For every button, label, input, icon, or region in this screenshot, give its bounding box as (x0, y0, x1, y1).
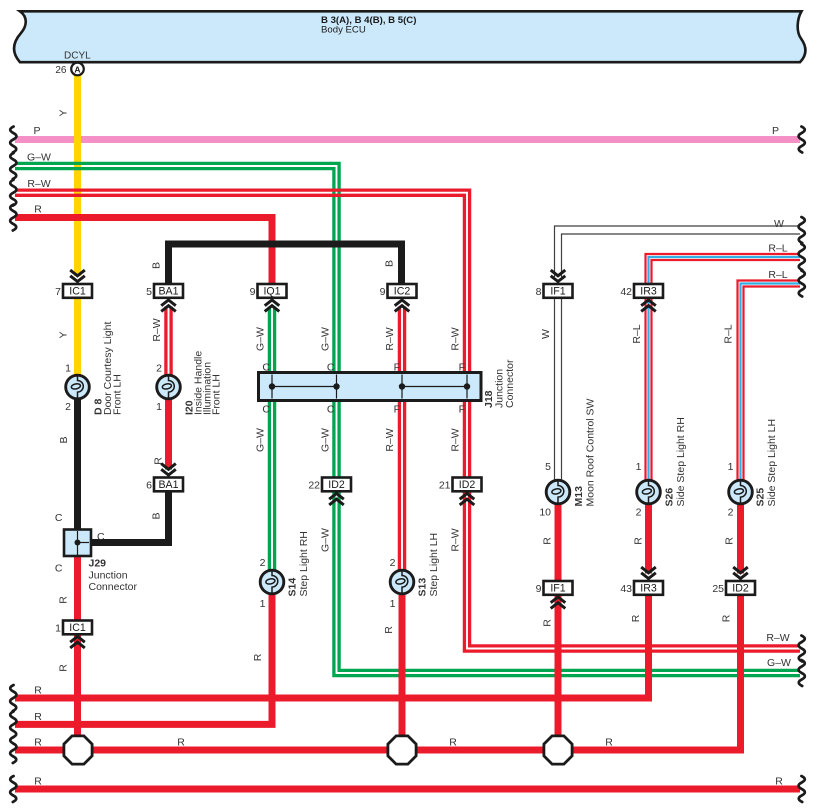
svg-text:42: 42 (620, 286, 632, 298)
svg-text:1: 1 (390, 598, 396, 610)
svg-text:B: B (151, 512, 163, 519)
svg-text:2: 2 (390, 557, 396, 569)
svg-text:R–W: R–W (450, 428, 462, 451)
svg-text:7: 7 (55, 286, 61, 298)
svg-text:1: 1 (55, 622, 61, 634)
svg-text:2: 2 (728, 507, 734, 519)
svg-text:R: R (34, 737, 42, 749)
svg-text:8: 8 (536, 286, 542, 298)
svg-text:R: R (58, 664, 70, 672)
svg-text:IF1: IF1 (550, 286, 565, 298)
svg-text:R: R (605, 737, 613, 749)
svg-text:C: C (262, 362, 270, 374)
svg-text:A: A (74, 64, 80, 74)
svg-text:F: F (459, 404, 465, 416)
svg-text:R: R (177, 737, 185, 749)
svg-text:R: R (153, 457, 165, 465)
svg-text:S14: S14 (287, 578, 299, 597)
svg-text:R: R (630, 614, 642, 622)
svg-text:C: C (327, 362, 335, 374)
svg-text:1: 1 (636, 461, 642, 473)
svg-text:R: R (252, 653, 264, 661)
svg-text:IC2: IC2 (394, 286, 411, 298)
svg-text:ID2: ID2 (328, 479, 345, 491)
svg-text:R–L: R–L (768, 243, 787, 255)
svg-text:S26: S26 (664, 488, 676, 507)
svg-text:5: 5 (146, 286, 152, 298)
svg-text:C: C (55, 512, 63, 524)
svg-text:R: R (542, 619, 554, 627)
svg-text:F: F (394, 404, 400, 416)
svg-text:G–W: G–W (320, 428, 332, 452)
svg-text:R: R (34, 204, 42, 216)
svg-text:R–W: R–W (27, 178, 50, 190)
svg-text:Junction: Junction (89, 570, 128, 582)
svg-text:10: 10 (539, 507, 551, 519)
svg-text:21: 21 (439, 479, 451, 491)
svg-text:R–W: R–W (450, 528, 462, 551)
svg-text:R: R (34, 776, 42, 788)
svg-text:R–W: R–W (766, 632, 789, 644)
svg-text:IF1: IF1 (550, 583, 565, 595)
svg-text:R–W: R–W (384, 327, 396, 350)
svg-text:W: W (540, 329, 552, 339)
svg-text:G–W: G–W (27, 152, 51, 164)
svg-text:R–W: R–W (384, 428, 396, 451)
svg-text:1: 1 (260, 598, 266, 610)
svg-text:1: 1 (65, 363, 71, 375)
svg-text:R–L: R–L (723, 324, 735, 343)
svg-text:2: 2 (156, 363, 162, 375)
svg-text:Connector: Connector (504, 359, 516, 408)
svg-text:IR3: IR3 (640, 286, 657, 298)
svg-text:1: 1 (156, 401, 162, 413)
svg-text:25: 25 (712, 583, 724, 595)
svg-text:6: 6 (146, 479, 152, 491)
svg-text:G–W: G–W (320, 528, 332, 552)
svg-text:R: R (724, 537, 736, 545)
svg-text:DCYL: DCYL (64, 51, 91, 62)
svg-text:R: R (542, 537, 554, 545)
svg-text:C: C (262, 404, 270, 416)
svg-text:1: 1 (728, 461, 734, 473)
svg-text:P: P (33, 125, 40, 137)
svg-text:22: 22 (308, 479, 320, 491)
svg-text:IC1: IC1 (69, 622, 86, 634)
svg-text:R: R (34, 711, 42, 723)
svg-text:R: R (34, 685, 42, 697)
svg-text:G–W: G–W (767, 657, 791, 669)
svg-text:J29: J29 (89, 558, 107, 570)
svg-text:Side Step Light LH: Side Step Light LH (766, 419, 778, 507)
svg-text:R: R (633, 537, 645, 545)
svg-text:S25: S25 (755, 488, 767, 507)
svg-text:W: W (774, 218, 784, 230)
svg-text:2: 2 (260, 557, 266, 569)
svg-text:Y: Y (58, 109, 70, 116)
svg-text:Side Step Light RH: Side Step Light RH (675, 417, 687, 506)
svg-text:R–L: R–L (631, 324, 643, 343)
svg-text:R–L: R–L (768, 269, 787, 281)
svg-text:F: F (394, 362, 400, 374)
svg-text:ID2: ID2 (732, 583, 749, 595)
svg-text:S13: S13 (417, 578, 429, 597)
svg-text:G–W: G–W (255, 327, 267, 351)
svg-text:Body ECU: Body ECU (321, 25, 366, 36)
svg-text:B: B (384, 260, 396, 267)
svg-text:R: R (58, 596, 70, 604)
svg-text:IC1: IC1 (69, 286, 86, 298)
svg-text:2: 2 (65, 401, 71, 413)
svg-text:C: C (327, 404, 335, 416)
svg-text:R: R (449, 737, 457, 749)
svg-text:R: R (775, 776, 783, 788)
svg-text:ID2: ID2 (459, 479, 476, 491)
svg-text:M13: M13 (573, 486, 585, 507)
svg-text:26: 26 (55, 65, 67, 76)
svg-text:R: R (383, 626, 395, 634)
svg-text:2: 2 (636, 507, 642, 519)
svg-text:9: 9 (536, 583, 542, 595)
svg-text:9: 9 (250, 286, 256, 298)
svg-text:IR3: IR3 (640, 583, 657, 595)
svg-text:G–W: G–W (255, 428, 267, 452)
svg-text:R: R (721, 614, 733, 622)
svg-text:G–W: G–W (320, 327, 332, 351)
svg-text:5: 5 (545, 461, 551, 473)
svg-text:Step Light RH: Step Light RH (298, 531, 310, 596)
svg-text:Front LH: Front LH (211, 374, 223, 415)
svg-text:Connector: Connector (89, 581, 138, 593)
svg-text:BA1: BA1 (158, 286, 178, 298)
svg-text:B: B (58, 436, 70, 443)
svg-text:Y: Y (58, 331, 70, 338)
svg-text:R–W: R–W (151, 318, 163, 341)
svg-text:Moon Roof Control SW: Moon Roof Control SW (585, 398, 597, 506)
svg-text:P: P (772, 125, 779, 137)
svg-text:BA1: BA1 (158, 479, 178, 491)
svg-text:C: C (55, 563, 63, 575)
svg-text:Front LH: Front LH (112, 374, 124, 415)
svg-text:9: 9 (380, 286, 386, 298)
svg-text:C: C (97, 531, 105, 543)
svg-text:43: 43 (620, 583, 632, 595)
svg-text:Step Light LH: Step Light LH (428, 533, 440, 597)
svg-text:B: B (151, 262, 163, 269)
svg-text:IQ1: IQ1 (263, 286, 280, 298)
svg-text:R–W: R–W (450, 327, 462, 350)
svg-text:F: F (459, 362, 465, 374)
